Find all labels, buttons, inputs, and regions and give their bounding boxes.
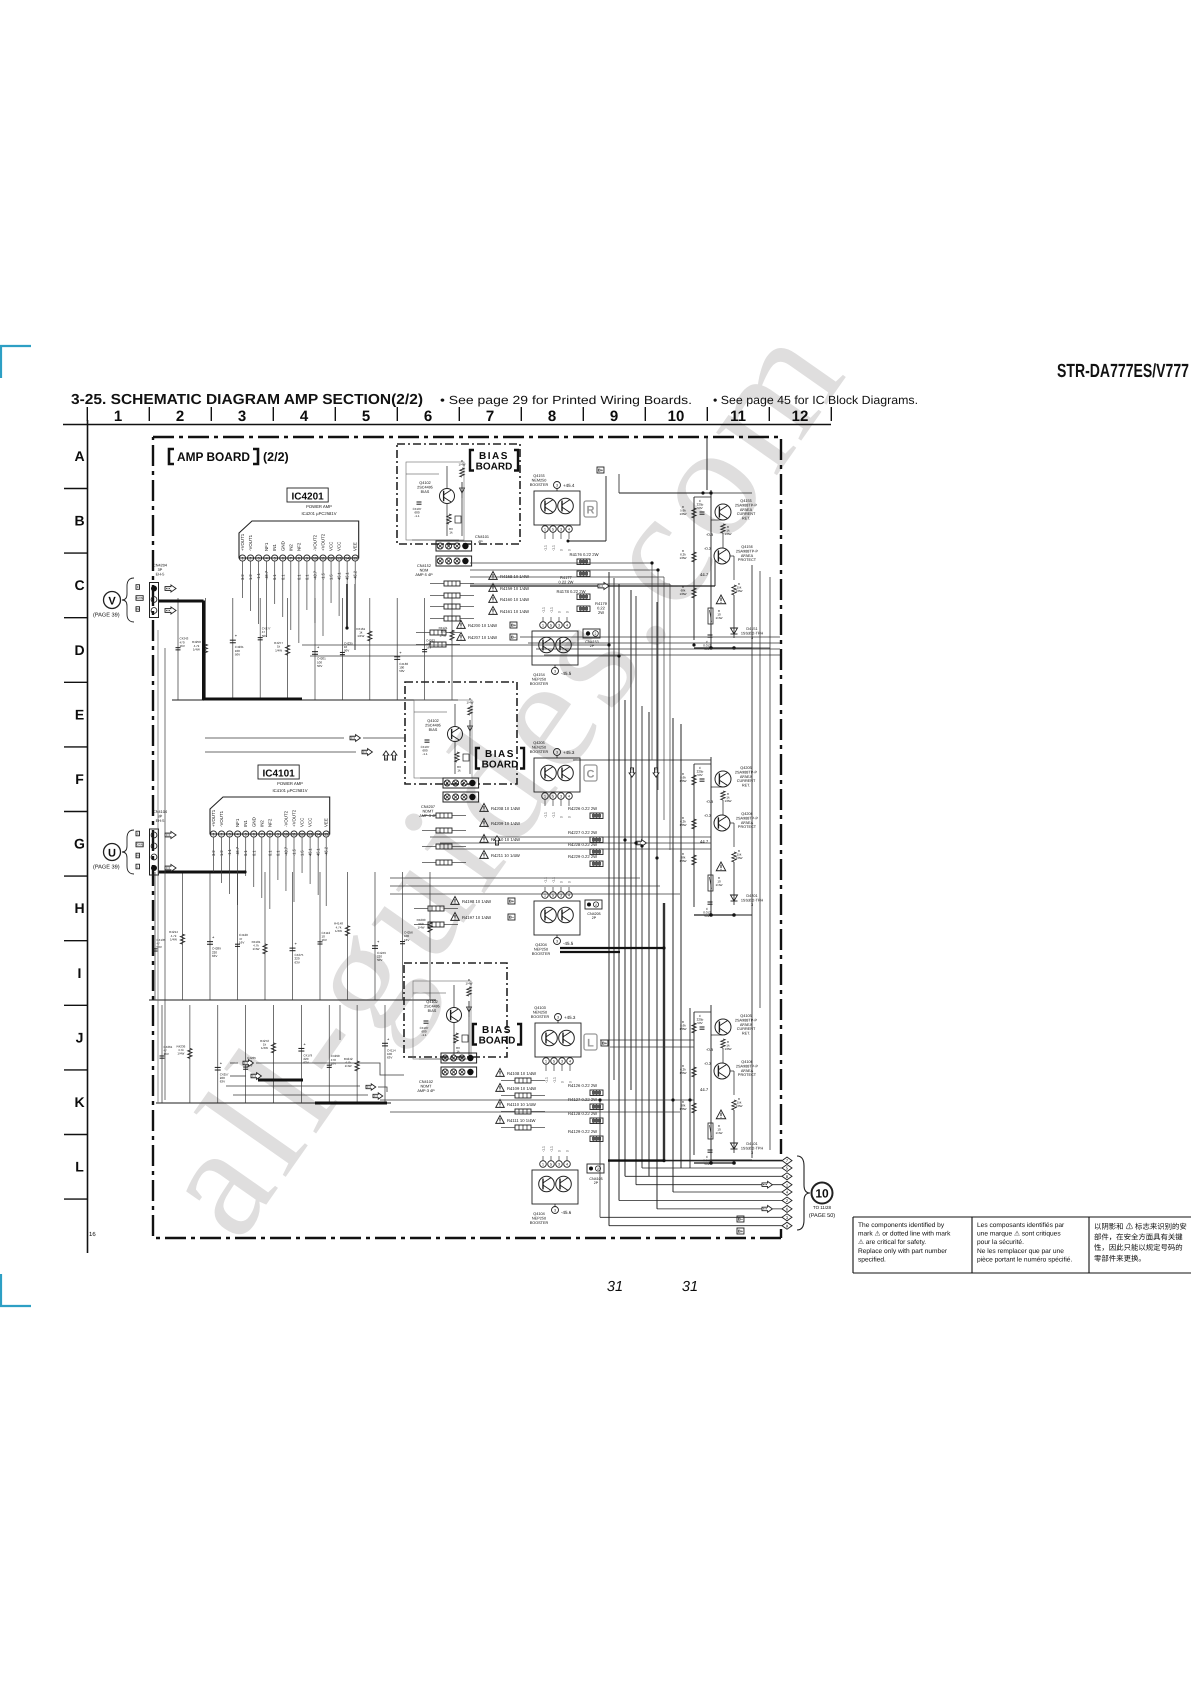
wire column n38	[384, 1005, 386, 1103]
svg-text:1: 1	[114, 408, 122, 425]
diode D4201	[733, 862, 735, 905]
capacitor n2E5	[290, 947, 296, 949]
wire bus horizontal group ch1	[520, 636, 780, 638]
wire feed to right column	[605, 476, 607, 541]
svg-text:9: 9	[306, 557, 308, 561]
op-amp IC4201 pin 10	[312, 555, 318, 561]
svg-text:0: 0	[561, 1081, 565, 1083]
svg-text:1/8W: 1/8W	[724, 532, 731, 536]
resistor R4211	[480, 851, 489, 859]
svg-text:50V: 50V	[697, 1021, 702, 1025]
diode D4101	[733, 1110, 735, 1153]
svg-text:R4129 0.22 2W: R4129 0.22 2W	[568, 1129, 597, 1134]
svg-text:VEE: VEE	[324, 818, 329, 827]
bias wires	[413, 992, 446, 994]
svg-text:BOOSTER: BOOSTER	[530, 682, 549, 686]
svg-text:Q4102: Q4102	[419, 481, 430, 485]
warning triangle	[716, 1110, 726, 1119]
svg-text:B+: B+	[509, 898, 515, 903]
net label B+	[508, 898, 515, 904]
svg-text:R4197 10 1/4W: R4197 10 1/4W	[462, 915, 491, 920]
net label B-	[737, 1216, 744, 1222]
svg-text:R4176 0.22 2W: R4176 0.22 2W	[569, 552, 598, 557]
svg-text:2SA988TP-P: 2SA988TP-P	[736, 1064, 759, 1068]
resistor R4198	[451, 897, 460, 905]
svg-text:16V: 16V	[426, 646, 431, 650]
signal arrows CN4104	[165, 831, 176, 838]
svg-text:3: 3	[554, 1209, 556, 1213]
svg-text:50V: 50V	[399, 669, 404, 673]
op-amp IC4201 pin 7	[288, 555, 294, 561]
wire staircase to bias3	[230, 1062, 238, 1064]
op-amp IC4101 pin 15	[323, 831, 329, 837]
wire ch1 mid horizontals	[470, 562, 652, 564]
terminal 5	[782, 1165, 792, 1172]
svg-text:16V: 16V	[404, 938, 409, 942]
wire thick ch3 stubs	[258, 1079, 303, 1082]
svg-text:NEM250: NEM250	[532, 478, 547, 482]
resistor R4 series	[708, 1123, 713, 1139]
svg-text:50V: 50V	[235, 652, 240, 656]
resistor n2R4	[263, 944, 267, 954]
svg-text:4: 4	[237, 833, 239, 837]
net label B+	[737, 1228, 744, 1234]
svg-text:50V: 50V	[377, 958, 382, 962]
svg-text:9: 9	[277, 833, 279, 837]
svg-text:R4208 10 1/4W: R4208 10 1/4W	[491, 806, 520, 811]
svg-text:CN4152: CN4152	[417, 564, 431, 568]
svg-text:2SC4495: 2SC4495	[425, 723, 441, 727]
svg-text:5: 5	[552, 795, 554, 799]
svg-text:1/4W: 1/4W	[193, 647, 200, 651]
svg-text:AFAEA: AFAEA	[740, 775, 753, 779]
svg-text:+45.3: +45.3	[563, 750, 575, 755]
svg-text:1/8W: 1/8W	[735, 589, 742, 593]
resistor R4197	[451, 913, 460, 921]
wires	[694, 763, 711, 765]
svg-text:63V: 63V	[220, 1080, 225, 1084]
capacitor n3C0	[160, 1055, 165, 1057]
warning triangle	[716, 862, 726, 871]
booster Q4205 transistors	[541, 765, 557, 781]
svg-text:IC4201 µPC2581V: IC4201 µPC2581V	[301, 511, 336, 516]
op-amp IC4201 pin 3	[256, 555, 262, 561]
svg-text:+45.4: +45.4	[563, 483, 575, 488]
svg-text:(PAGE 39): (PAGE 39)	[93, 612, 120, 619]
svg-text:1k: 1k	[449, 531, 453, 535]
svg-text:NDM: NDM	[420, 568, 429, 572]
connector CN4104	[150, 829, 159, 875]
svg-text:1/4W: 1/4W	[252, 947, 259, 951]
svg-text:1/4W: 1/4W	[465, 982, 472, 986]
svg-text:3: 3	[557, 1016, 559, 1020]
svg-text:1/4W: 1/4W	[345, 1064, 352, 1068]
svg-text:IN2: IN2	[288, 544, 293, 551]
svg-text:BOOSTER: BOOSTER	[532, 952, 551, 956]
resistor R4 series	[708, 875, 713, 891]
svg-text:TO 11/28: TO 11/28	[813, 1205, 831, 1210]
svg-text:Q4102: Q4102	[426, 1000, 437, 1004]
vertical rail B	[710, 1005, 712, 1163]
svg-text:The components identified b: The components identified by	[858, 1222, 945, 1229]
wire column n29	[402, 872, 404, 1000]
capacitor n1C3	[258, 637, 263, 639]
connector CN4101 4P row1	[436, 541, 472, 551]
booster Q4204 pin row	[542, 892, 549, 899]
network rails n2	[149, 999, 436, 1001]
svg-text:-1.1: -1.1	[544, 545, 548, 551]
net label B-	[508, 914, 515, 920]
svg-text:R4207 10 1/4W: R4207 10 1/4W	[468, 635, 497, 640]
svg-text:BOOSTER: BOOSTER	[530, 483, 549, 487]
svg-text:-45.5: -45.5	[561, 671, 572, 676]
trimmer RV	[454, 1033, 458, 1043]
svg-text:1/8W: 1/8W	[735, 856, 742, 860]
wire feed to right column 2	[573, 759, 711, 761]
wire left bundle	[157, 630, 159, 1103]
svg-text:B−: B−	[509, 914, 515, 919]
svg-text:AMP-5 4P: AMP-5 4P	[415, 573, 433, 577]
svg-text:R4178 0.22 2W: R4178 0.22 2W	[556, 589, 585, 594]
svg-text:1/8W: 1/8W	[735, 1104, 742, 1108]
svg-text:1/4W: 1/4W	[715, 616, 722, 620]
svg-text:BOARD: BOARD	[479, 1036, 516, 1047]
svg-text:4: 4	[568, 528, 570, 532]
svg-text:8: 8	[298, 557, 300, 561]
svg-text:AFAEA: AFAEA	[741, 554, 754, 558]
bias board enclosure	[397, 444, 520, 544]
net label B+	[510, 622, 517, 628]
svg-text:3: 3	[558, 1163, 560, 1167]
op-amp IC4101 label	[258, 765, 299, 779]
svg-text:K: K	[74, 1094, 84, 1110]
svg-text:1/4W: 1/4W	[417, 925, 424, 929]
svg-text:+VOUT2: +VOUT2	[292, 809, 297, 827]
op-amp IC4201 pin 13	[336, 555, 342, 561]
wire column n18	[396, 598, 398, 700]
registration mark bottom-left	[1, 1274, 31, 1306]
wire ch1 net to bus	[302, 644, 609, 646]
svg-text:3: 3	[229, 833, 231, 837]
transistor Q4205 (current limiter)	[715, 771, 731, 787]
grid ruler top line	[63, 424, 831, 426]
connector CN4101 row1	[443, 778, 479, 788]
resistor n2R10	[428, 922, 432, 932]
svg-text:Q4103: Q4103	[534, 1006, 545, 1010]
svg-text:5: 5	[362, 408, 370, 425]
svg-text:3: 3	[554, 670, 556, 674]
op-amp IC4201 body	[239, 521, 359, 558]
capacitor n2E2	[207, 941, 213, 943]
svg-text:1: 1	[542, 1163, 544, 1167]
booster Q4204 emitter pin	[554, 938, 561, 945]
bias sub-circuit outline	[406, 462, 464, 540]
svg-text:15: 15	[324, 833, 328, 837]
svg-text:RET.: RET.	[742, 784, 750, 788]
svg-text:-1.1: -1.1	[552, 545, 556, 551]
wire VCC thick drop	[346, 584, 348, 628]
svg-text:R4227 0.22 2W: R4227 0.22 2W	[568, 830, 597, 835]
capacitor n1E8	[394, 656, 400, 658]
page reference V	[104, 592, 121, 609]
svg-text:2: 2	[221, 833, 223, 837]
svg-text:3: 3	[258, 557, 260, 561]
vertical arrows pair	[383, 751, 389, 760]
bias sub-circuit outline	[413, 981, 471, 1059]
svg-text:Les composants identifiés par: Les composants identifiés par	[977, 1222, 1065, 1229]
svg-text:W: W	[136, 853, 139, 857]
svg-text:GND: GND	[251, 817, 256, 827]
svg-text:NF2: NF2	[296, 542, 301, 551]
svg-text:AFAEA: AFAEA	[740, 1023, 753, 1027]
capacitor C out	[708, 634, 713, 636]
resistor R4108	[496, 1069, 505, 1077]
svg-text:-1.1: -1.1	[542, 607, 546, 613]
svg-text:R4229 0.22 2W: R4229 0.22 2W	[568, 854, 597, 859]
vertical rail B	[710, 757, 712, 915]
trimmer RV	[447, 514, 451, 524]
svg-text:16V: 16V	[180, 644, 185, 648]
power rails B+ B-	[751, 565, 753, 1158]
svg-text:4: 4	[566, 1163, 568, 1167]
svg-text:+VOUT1: +VOUT1	[240, 533, 245, 551]
channel letter C	[584, 765, 597, 781]
svg-text:NF1: NF1	[264, 542, 269, 551]
svg-text:R4111 10 1/4W: R4111 10 1/4W	[507, 1118, 536, 1123]
wire bus vertical	[630, 590, 632, 1090]
booster Q4103 transistors	[542, 1030, 558, 1046]
op-amp IC4101 pin 14	[315, 831, 321, 837]
svg-text:Ne les remplacer que par une: Ne les remplacer que par une	[977, 1248, 1064, 1255]
svg-text:50V: 50V	[697, 773, 702, 777]
svg-text:2: 2	[250, 557, 252, 561]
booster Q4155 transistors	[541, 498, 557, 514]
wire column n12	[232, 598, 234, 700]
svg-text:+45.3: +45.3	[564, 1015, 576, 1020]
svg-text:以阴影和 ⚠ 标志来识别的安: 以阴影和 ⚠ 标志来识别的安	[1094, 1222, 1187, 1231]
AMP BOARD boundary	[153, 437, 781, 1238]
svg-text:5: 5	[550, 624, 552, 628]
svg-text:-0.5: -0.5	[706, 532, 714, 537]
svg-text:1/4W: 1/4W	[261, 1046, 268, 1050]
svg-text:Replace only with part number: Replace only with part number	[858, 1248, 948, 1255]
svg-text:2: 2	[595, 632, 597, 636]
BIAS BOARD title	[473, 1024, 477, 1045]
booster Q4103 pin row	[543, 1058, 550, 1065]
capacitor n1C0	[176, 647, 181, 649]
svg-text:R4211 10 1/4W: R4211 10 1/4W	[491, 853, 520, 858]
svg-text:0: 0	[568, 881, 572, 883]
wire to terminal 3	[600, 1216, 782, 1218]
warning triangle	[716, 595, 726, 604]
booster Q4155 pin row	[542, 526, 549, 533]
transistor Q4155 (current limiter)	[715, 504, 731, 520]
svg-text:V: V	[108, 596, 116, 608]
svg-text:E: E	[137, 585, 139, 589]
svg-text:R4126 0.22 2W: R4126 0.22 2W	[568, 1083, 597, 1088]
resistor R4160	[489, 595, 498, 603]
svg-text:1/4W: 1/4W	[466, 701, 473, 705]
capacitor C out	[708, 1149, 713, 1151]
resistor stack left	[692, 508, 696, 518]
booster Q4204 transistors	[541, 907, 557, 923]
svg-text:14: 14	[316, 833, 320, 837]
resistor R bias	[467, 987, 471, 996]
svg-text:B+: B+	[598, 467, 604, 472]
svg-text:Q4156: Q4156	[741, 545, 752, 549]
svg-text:63V: 63V	[387, 1055, 392, 1059]
svg-text:15: 15	[353, 557, 357, 561]
booster Q4155 collector pin	[554, 482, 561, 489]
transistor Q4106 (protect)	[714, 1063, 730, 1079]
resistor n2R1	[180, 934, 184, 944]
diode D4151	[733, 595, 735, 638]
svg-text:4: 4	[566, 624, 568, 628]
svg-text:-VOUT2: -VOUT2	[283, 810, 288, 827]
svg-text:11: 11	[321, 557, 325, 561]
svg-text:1: 1	[542, 624, 544, 628]
transistor Q4102 (bias)	[448, 727, 463, 742]
svg-text:2P: 2P	[594, 1181, 599, 1185]
svg-text:13: 13	[308, 833, 312, 837]
svg-text:5: 5	[274, 557, 276, 561]
svg-text:G: G	[74, 836, 85, 852]
bias wires	[406, 473, 439, 475]
resistor n1R1	[203, 644, 207, 654]
svg-text:12: 12	[329, 557, 333, 561]
svg-text:R4158 10 1/4W: R4158 10 1/4W	[500, 574, 529, 579]
svg-text:1/8W: 1/8W	[724, 1047, 731, 1051]
capacitor n3E2	[215, 1066, 221, 1068]
svg-text:0: 0	[568, 816, 572, 818]
svg-text:2P: 2P	[592, 916, 597, 920]
svg-text:I: I	[78, 965, 82, 981]
svg-text:CURRENT: CURRENT	[737, 512, 756, 516]
svg-text:H: H	[74, 900, 84, 916]
op-amp IC4101 pin 3	[227, 831, 233, 837]
trimmer RV	[455, 752, 459, 762]
op-amp IC4101 pin 12	[299, 831, 305, 837]
svg-text:-45.5: -45.5	[563, 941, 574, 946]
svg-text:specified.: specified.	[858, 1256, 886, 1263]
op-amp IC4201 pin 11	[320, 555, 326, 561]
wire to terminal 4	[673, 1191, 782, 1193]
svg-text:• See page 29 for Printed Wiri: • See page 29 for Printed Wiring Boards.	[440, 393, 692, 407]
svg-text:50V: 50V	[697, 506, 702, 510]
wire to terminal 8	[625, 1175, 782, 1177]
op-amp IC4101 pin 2	[218, 831, 224, 837]
svg-text:CURRENT: CURRENT	[737, 779, 756, 783]
svg-text:RET.: RET.	[742, 517, 750, 521]
wire column n10	[177, 598, 179, 700]
resistor R protect	[732, 585, 736, 595]
terminal 3	[782, 1214, 792, 1221]
svg-text:Q4104: Q4104	[533, 1212, 544, 1216]
wire bus vertical	[663, 903, 665, 1161]
capacitor n3C6	[327, 1064, 332, 1066]
terminal 8	[782, 1173, 792, 1180]
svg-text:IC4201: IC4201	[291, 491, 324, 502]
channel letter R	[584, 501, 597, 517]
svg-text:-0.3: -0.3	[704, 1061, 712, 1066]
wire bus vertical	[608, 572, 610, 1226]
svg-text:1: 1	[544, 795, 546, 799]
net label B+	[597, 467, 604, 473]
wire column n31	[189, 1005, 191, 1103]
svg-text:pour la sécurité.: pour la sécurité.	[977, 1239, 1024, 1246]
BIAS BOARD title	[470, 450, 474, 471]
svg-text:AMP-3 4P: AMP-3 4P	[417, 1089, 435, 1093]
resistor R protect	[732, 852, 736, 862]
svg-text:(2/2): (2/2)	[263, 450, 289, 464]
wire top feed	[706, 437, 708, 490]
wire thick bus ch2 bottom	[560, 947, 664, 949]
svg-text:-1.1: -1.1	[542, 1146, 546, 1152]
svg-text:2SA988TP-P: 2SA988TP-P	[735, 503, 758, 507]
network rails n3	[156, 1102, 391, 1104]
bias sub-circuit outline	[414, 700, 472, 778]
svg-text:7: 7	[290, 557, 292, 561]
connector CN4102 row2	[441, 1067, 477, 1077]
svg-text:W: W	[136, 607, 139, 611]
diode D bias	[461, 482, 463, 498]
svg-text:R4109 10 1/4W: R4109 10 1/4W	[507, 1086, 536, 1091]
svg-text:R4226 0.22 2W: R4226 0.22 2W	[568, 806, 597, 811]
svg-text:1/4W: 1/4W	[170, 937, 177, 941]
svg-text:(PAGE 50): (PAGE 50)	[809, 1213, 835, 1219]
svg-text:50V: 50V	[344, 649, 349, 653]
wire bus vertical	[613, 578, 615, 1080]
svg-text:+VOUT2: +VOUT2	[321, 533, 326, 551]
wire to terminal 2	[619, 1200, 782, 1202]
svg-text:BOOSTER: BOOSTER	[530, 1221, 549, 1225]
bias wires	[414, 711, 447, 713]
op-amp IC4101 pin 8	[267, 831, 273, 837]
svg-text:1/4W: 1/4W	[715, 883, 722, 887]
svg-text:J: J	[76, 1029, 84, 1045]
svg-text:pièce portant le numéro spécif: pièce portant le numéro spécifié.	[977, 1256, 1072, 1263]
capacitor C bias	[417, 501, 422, 503]
svg-text:BOARD: BOARD	[482, 760, 519, 771]
svg-text:B+: B+	[602, 1040, 608, 1045]
svg-text:-1.1: -1.1	[545, 1077, 549, 1083]
vertical rail B	[710, 490, 712, 648]
svg-text:R4127 0.22 2W: R4127 0.22 2W	[568, 1097, 597, 1102]
svg-text:BOARD: BOARD	[476, 462, 513, 473]
safety notes table	[853, 1216, 1191, 1218]
op-amp IC4201 pin 8	[296, 555, 302, 561]
svg-text:1: 1	[544, 528, 546, 532]
wire column n13	[259, 598, 261, 700]
resistor R4208	[480, 804, 489, 812]
svg-text:PROTECT: PROTECT	[738, 558, 757, 562]
channel letter L	[584, 1034, 597, 1050]
svg-text:C: C	[74, 577, 84, 593]
net label B+	[601, 1040, 608, 1046]
svg-text:10: 10	[668, 408, 685, 425]
svg-text:E: E	[137, 831, 139, 835]
op-amp IC4201 pin 1	[239, 555, 245, 561]
svg-text:-0.3: -0.3	[704, 546, 712, 551]
svg-text:0: 0	[566, 1150, 570, 1152]
wire column n26	[319, 872, 321, 1000]
resistor n1R4	[285, 645, 289, 655]
svg-text:une marque ⚠ sont critiques: une marque ⚠ sont critiques	[977, 1231, 1061, 1238]
svg-text:VEE: VEE	[353, 542, 358, 551]
svg-text:16: 16	[89, 1231, 96, 1238]
wire column n33	[245, 1005, 247, 1103]
op-amp IC4201 pin 14	[344, 555, 350, 561]
